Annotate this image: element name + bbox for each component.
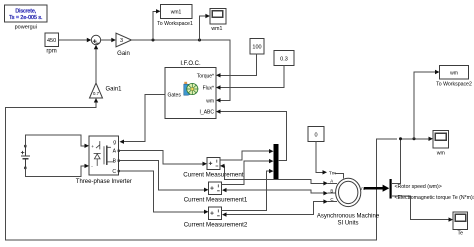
wire sum to Gain (101, 39, 112, 41)
wire 100 to Torque* (221, 54, 257, 75)
svg-text:To Workspace1: To Workspace1 (157, 21, 193, 27)
junction rotor speed to feedback (399, 137, 402, 140)
svg-text:Current Measurement2: Current Measurement2 (184, 221, 248, 228)
svg-text:SI Units: SI Units (337, 221, 358, 227)
svg-text:<Electromagnetic torque Te (N*: <Electromagnetic torque Te (N*m)> (395, 195, 474, 201)
inverter output port squares (118, 150, 120, 152)
junction rotor speed to To Workspace2 (413, 137, 416, 140)
svg-text:0: 0 (314, 133, 317, 139)
svg-text:wm: wm (206, 98, 214, 104)
wire Current Measurement - terminal to machine A (224, 166, 324, 183)
svg-text:Flux*: Flux* (203, 86, 214, 92)
wire Current Measurement2 i output to mux input 3 (222, 171, 270, 211)
svg-text:Current Measurement1: Current Measurement1 (184, 196, 248, 203)
constant block 0 (308, 127, 324, 142)
gain block Gain (3) (116, 33, 132, 57)
svg-text:I.F.O.C.: I.F.O.C. (180, 61, 201, 67)
Current Measurement2 block (184, 207, 248, 228)
constant block 450 rpm (45, 33, 58, 54)
wire inverter C to Current Measurement2 (120, 171, 204, 212)
wire Current Measurement1 - terminal to machine B (226, 190, 324, 193)
wire mux output to IFOC I_ABC (221, 112, 287, 161)
wire bus selector rotor speed output (392, 139, 429, 184)
wire branch to scope wm1 (200, 16, 206, 40)
junction at Gain wire branch to scope wm1 (198, 39, 201, 42)
wire branch to To Workspace1 (153, 11, 157, 40)
wire Current Measurement2 - terminal to machine C (226, 202, 324, 215)
svg-text:<Rotor speed (wm)>: <Rotor speed (wm)> (395, 184, 442, 190)
svg-text:wm: wm (437, 151, 445, 157)
svg-text:I_ABC: I_ABC (200, 110, 215, 116)
svg-text:Te: Te (458, 231, 464, 237)
svg-text:450: 450 (47, 38, 56, 44)
wire Gain1 output to sum minus input (95, 49, 97, 83)
wire inverter A to Current Measurement (120, 151, 203, 164)
svg-text:C: C (112, 169, 116, 175)
svg-text:wm1: wm1 (211, 26, 222, 32)
DC voltage source (21, 145, 29, 169)
svg-text:Torque*: Torque* (197, 73, 214, 79)
wire DC+ to inverter + (25, 135, 85, 146)
mux block (274, 144, 279, 180)
wire Gain output to wm input of IFOC (132, 40, 231, 100)
constant block 0.3 (274, 51, 294, 66)
svg-text:B: B (330, 188, 333, 193)
svg-text:Discrete,: Discrete, (15, 8, 36, 14)
svg-text:rpm: rpm (46, 49, 56, 55)
svg-text:0.3: 0.3 (280, 57, 288, 63)
Current Measurement block (183, 158, 243, 179)
svg-text:100: 100 (252, 45, 261, 51)
svg-text:powergui: powergui (15, 25, 37, 31)
svg-text:Gates: Gates (168, 92, 182, 98)
IFOC subsystem block (165, 61, 216, 119)
Asynchronous Machine block (317, 170, 380, 226)
sum block (91, 35, 100, 44)
wire Current Measurement1 i output to mux input 2 (222, 161, 270, 184)
svg-text:Ts = 2e-005 s.: Ts = 2e-005 s. (9, 15, 42, 21)
svg-text:To Workspace2: To Workspace2 (436, 82, 472, 88)
Gates wire from IFOC to inverter g (124, 94, 165, 141)
wire Current Measurement i output to mux input 1 (220, 151, 270, 160)
Current Measurement1 block (184, 182, 248, 203)
Three-phase Inverter block (76, 136, 132, 185)
speed feedback wire into Gain1 (6, 102, 397, 240)
gain block Gain1 (0.7) pointing up (90, 83, 123, 98)
wire 450 to sum (59, 39, 88, 41)
svg-text:Asynchronous Machine: Asynchronous Machine (317, 214, 380, 220)
svg-text:Gain1: Gain1 (106, 87, 123, 93)
wire DC- to inverter - (25, 166, 85, 176)
wire to To Workspace2 (414, 72, 435, 139)
bus selector block (390, 179, 392, 199)
svg-text:Gain: Gain (117, 51, 130, 57)
svg-text:3: 3 (120, 38, 123, 44)
scope wm1 (210, 8, 226, 32)
machine port stubs (328, 174, 344, 202)
wire 0.3 to Flux* (221, 66, 285, 88)
svg-text:wm: wm (450, 71, 458, 77)
scope Te (453, 212, 468, 237)
svg-text:Three-phase Inverter: Three-phase Inverter (76, 179, 132, 185)
bus output wire m to bus selector (366, 187, 384, 190)
junction at Gain wire branch to To Workspace1 (152, 39, 155, 42)
To Workspace1 block (157, 5, 193, 28)
powergui block (5, 5, 48, 31)
svg-text:g: g (113, 140, 116, 146)
inverter internal icon: IGBT and diode (94, 142, 114, 166)
scope wm (433, 131, 449, 157)
wire bus selector torque output to scope Te (392, 196, 449, 220)
svg-text:+: + (91, 144, 94, 149)
svg-text:Current Measurement: Current Measurement (183, 171, 243, 178)
wire inverter B to Current Measurement1 (120, 161, 204, 190)
svg-text:0.7: 0.7 (93, 91, 100, 96)
IFOC icon (184, 82, 198, 95)
To Workspace2 block (436, 66, 472, 88)
constant block 100 (250, 39, 264, 55)
wire 0 to machine Tm (316, 142, 323, 173)
svg-text:wm1: wm1 (171, 10, 182, 16)
